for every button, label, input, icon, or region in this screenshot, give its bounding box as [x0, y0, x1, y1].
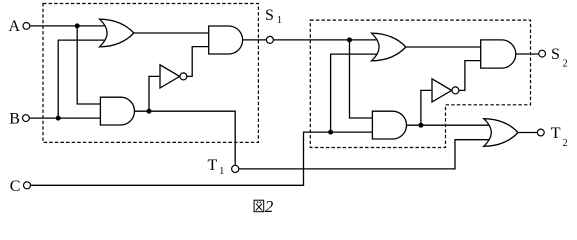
- input terminal B: [23, 115, 30, 122]
- wire C to AND2 bottom input: [331, 131, 373, 133]
- wire inverter1 output to AND-S1 bottom input: [187, 47, 209, 77]
- inverter HA1 triangle: [160, 65, 180, 88]
- wire C branch to OR2 bottom input: [331, 54, 377, 132]
- wire junction to inverter1 input: [149, 76, 160, 111]
- wire AND2 output to OR-T2 top input: [407, 124, 489, 126]
- svg-text:T: T: [208, 157, 218, 174]
- wire S1 to OR2 top input: [273, 39, 376, 41]
- svg-text:2: 2: [563, 58, 568, 69]
- wire T1 to OR-T2 bottom input: [239, 140, 489, 169]
- svg-text:T: T: [551, 125, 561, 142]
- OR gate HA2: [372, 33, 406, 61]
- wire C to HA2: [31, 132, 331, 185]
- junction on A wire: [75, 23, 80, 28]
- output terminal T1: [232, 165, 239, 172]
- wire OR1 output to AND-S1 top input: [134, 32, 209, 34]
- svg-text:1: 1: [219, 166, 224, 177]
- OR gate HA1: [100, 19, 134, 47]
- output terminal S1: [266, 36, 273, 43]
- caption figure glyph ZU (boxed): [254, 200, 264, 212]
- AND gate S2: [481, 40, 516, 68]
- wire junction to inverter2 input: [421, 90, 433, 125]
- half-adder 1 dashed box: [43, 4, 258, 143]
- input terminal A: [23, 23, 30, 30]
- svg-text:2: 2: [265, 197, 274, 216]
- inverter HA2 triangle: [432, 79, 452, 102]
- output terminal T2: [537, 129, 544, 136]
- junction on B wire: [56, 116, 61, 121]
- input terminal C: [24, 182, 31, 189]
- wire AND1 output to T1 terminal: [135, 111, 236, 165]
- wire OR-T2 output to T2 terminal: [518, 132, 537, 134]
- inverter HA1 bubble: [180, 73, 187, 80]
- OR gate T2: [484, 119, 518, 147]
- junction on C wire: [328, 130, 333, 135]
- junction on AND2 output: [418, 123, 423, 128]
- svg-text:A: A: [9, 18, 21, 35]
- svg-text:C: C: [10, 178, 21, 195]
- wire A branch to AND1 top input: [77, 26, 101, 104]
- wire A to OR1 top input: [30, 25, 106, 27]
- wire S1 branch to AND2 top input: [350, 40, 373, 118]
- inverter HA2 bubble: [452, 87, 459, 94]
- wire AND-S2 output to S2 terminal: [516, 53, 539, 55]
- svg-text:1: 1: [277, 15, 282, 26]
- wire B branch to OR1 bottom input: [58, 40, 105, 118]
- output terminal S2: [539, 50, 546, 57]
- wire AND-S1 output to S1 terminal: [243, 39, 267, 41]
- wire inverter2 output to AND-S2 bottom input: [459, 61, 481, 91]
- AND gate S1: [209, 26, 243, 54]
- junction on AND1 output: [147, 109, 152, 114]
- svg-text:B: B: [9, 110, 20, 127]
- AND gate HA2: [372, 111, 406, 139]
- svg-text:S: S: [265, 7, 274, 24]
- wire B to AND1 bottom input: [29, 117, 101, 119]
- half-adder 2 dashed box (notched): [310, 20, 530, 147]
- svg-text:2: 2: [563, 138, 568, 149]
- junction on S1 wire: [347, 37, 352, 42]
- svg-text:S: S: [551, 46, 560, 63]
- AND gate HA1: [100, 97, 134, 125]
- wire OR2 output to AND-S2 top input: [406, 46, 481, 48]
